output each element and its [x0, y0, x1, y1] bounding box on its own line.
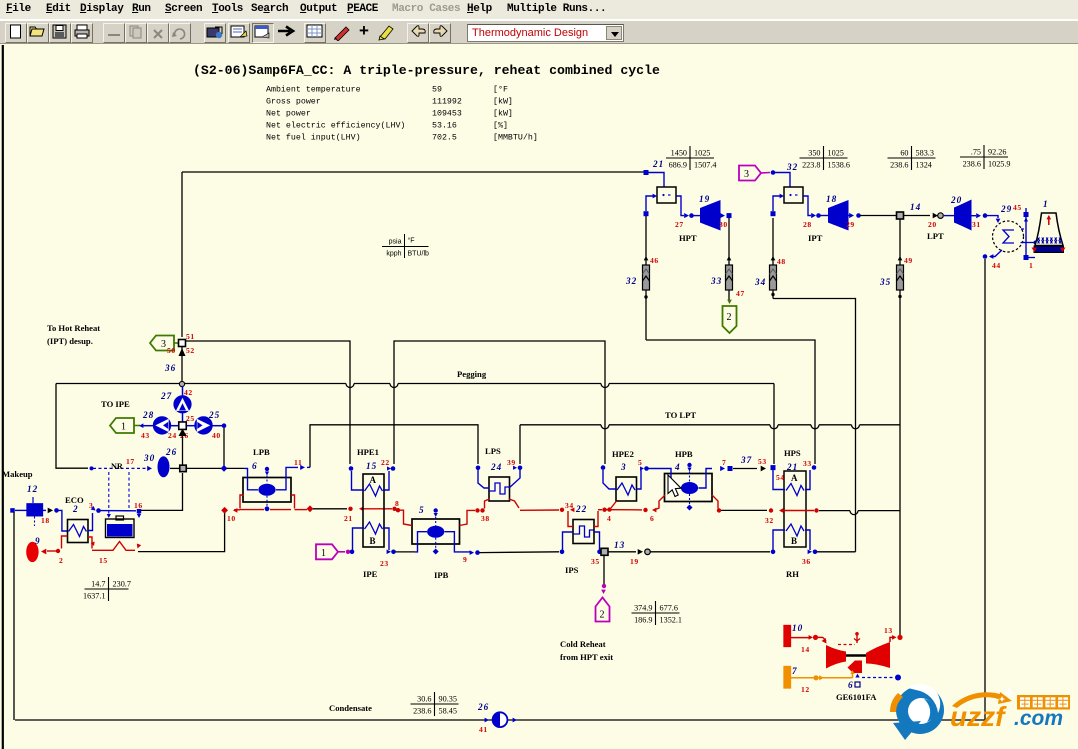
- svg-text:9: 9: [35, 536, 41, 546]
- svg-text:1: 1: [1029, 261, 1033, 270]
- svg-text:[kW]: [kW]: [493, 109, 513, 119]
- svg-text:30: 30: [719, 220, 728, 229]
- svg-text:53: 53: [758, 457, 767, 466]
- svg-text:238.6: 238.6: [890, 161, 908, 170]
- svg-text:13: 13: [884, 626, 893, 635]
- svg-text:677.6: 677.6: [660, 604, 678, 613]
- svg-text:Gross power: Gross power: [266, 98, 321, 107]
- svg-text:18: 18: [826, 194, 837, 204]
- svg-text:27: 27: [160, 391, 172, 401]
- svg-text:23: 23: [380, 559, 389, 568]
- svg-text:49: 49: [904, 256, 913, 265]
- svg-text:NR: NR: [111, 462, 123, 471]
- svg-text:46: 46: [650, 256, 659, 265]
- svg-text:702.5: 702.5: [432, 134, 457, 143]
- svg-text:1637.1: 1637.1: [83, 592, 106, 601]
- svg-text:21: 21: [786, 462, 798, 472]
- svg-text:1: 1: [121, 422, 126, 433]
- svg-text:30: 30: [143, 453, 155, 463]
- svg-text:31: 31: [972, 220, 981, 229]
- svg-text:51: 51: [186, 332, 195, 341]
- svg-text:22: 22: [575, 504, 587, 514]
- svg-text:LPS: LPS: [485, 446, 501, 456]
- svg-text:2: 2: [59, 556, 63, 565]
- svg-text:.com: .com: [1014, 707, 1063, 730]
- svg-text:6: 6: [252, 461, 258, 471]
- svg-text:14: 14: [801, 645, 810, 654]
- svg-text:2: 2: [72, 504, 79, 514]
- svg-text:7: 7: [722, 458, 726, 467]
- svg-text:58.45: 58.45: [439, 707, 457, 716]
- svg-text:To Hot Reheat: To Hot Reheat: [47, 323, 100, 333]
- svg-text:32: 32: [765, 516, 774, 525]
- svg-text:LPT: LPT: [927, 231, 944, 241]
- svg-text:1: 1: [321, 548, 326, 559]
- svg-text:1025: 1025: [694, 149, 710, 158]
- svg-text:36: 36: [164, 363, 176, 373]
- svg-text:from HPT exit: from HPT exit: [560, 652, 613, 662]
- svg-text:238.6: 238.6: [413, 707, 431, 716]
- svg-text:24: 24: [168, 431, 177, 440]
- svg-text:10: 10: [792, 623, 803, 633]
- svg-text:92.26: 92.26: [988, 148, 1006, 157]
- svg-text:44: 44: [992, 261, 1001, 270]
- svg-text:25: 25: [208, 410, 220, 420]
- svg-text:29: 29: [1000, 204, 1012, 214]
- svg-text:39: 39: [507, 458, 516, 467]
- svg-text:Net fuel input(LHV): Net fuel input(LHV): [266, 133, 361, 143]
- svg-text:B: B: [791, 536, 797, 546]
- svg-text:35: 35: [879, 277, 891, 287]
- svg-text:12: 12: [801, 685, 810, 694]
- svg-text:41: 41: [479, 725, 488, 734]
- svg-text:34: 34: [754, 277, 766, 287]
- svg-text:17: 17: [126, 457, 135, 466]
- svg-text:(IPT) desup.: (IPT) desup.: [47, 336, 93, 346]
- svg-text:12: 12: [27, 484, 38, 494]
- svg-text:HPT: HPT: [679, 233, 697, 243]
- svg-text:5: 5: [638, 458, 642, 467]
- svg-text:HPS: HPS: [784, 448, 801, 458]
- svg-text:15: 15: [366, 461, 377, 471]
- svg-text:GE6101FA: GE6101FA: [836, 692, 877, 702]
- svg-text:20: 20: [928, 220, 937, 229]
- svg-text:29: 29: [846, 220, 855, 229]
- svg-text:HPE2: HPE2: [612, 449, 634, 459]
- svg-text:20: 20: [950, 195, 962, 205]
- svg-text:2: 2: [727, 312, 732, 323]
- svg-text:psia: psia: [389, 239, 402, 246]
- svg-text:Condensate: Condensate: [329, 703, 372, 713]
- svg-text:3: 3: [620, 462, 627, 472]
- svg-text:33: 33: [803, 459, 812, 468]
- svg-text:28: 28: [142, 410, 154, 420]
- svg-text:90.35: 90.35: [439, 695, 457, 704]
- svg-text:19: 19: [699, 194, 710, 204]
- svg-text:25: 25: [186, 414, 195, 423]
- svg-text:47: 47: [736, 289, 745, 298]
- svg-text:32: 32: [625, 276, 637, 286]
- svg-text:1538.6: 1538.6: [828, 161, 851, 170]
- svg-text:26: 26: [477, 702, 489, 712]
- svg-text:111992: 111992: [432, 98, 462, 107]
- svg-text:22: 22: [381, 458, 390, 467]
- svg-text:30.6: 30.6: [417, 695, 431, 704]
- svg-text:374.9: 374.9: [634, 604, 652, 613]
- svg-text:33: 33: [710, 276, 722, 286]
- svg-text:[kW]: [kW]: [493, 97, 513, 107]
- svg-text:11: 11: [294, 458, 302, 467]
- svg-text:583.3: 583.3: [916, 149, 934, 158]
- svg-text:1324: 1324: [916, 161, 932, 170]
- svg-text:[°F: [°F: [493, 85, 508, 95]
- svg-text:[MMBTU/h]: [MMBTU/h]: [493, 133, 538, 143]
- svg-text:TO LPT: TO LPT: [665, 410, 696, 420]
- svg-text:2: 2: [600, 610, 605, 621]
- svg-text:A: A: [791, 473, 798, 483]
- svg-text:38: 38: [481, 514, 490, 523]
- svg-text:35: 35: [591, 557, 600, 566]
- svg-text:19: 19: [630, 557, 639, 566]
- svg-text:1025: 1025: [828, 149, 844, 158]
- svg-text:16: 16: [134, 501, 143, 510]
- svg-text:6: 6: [650, 514, 654, 523]
- svg-text:109453: 109453: [432, 110, 462, 119]
- svg-text:21: 21: [344, 514, 353, 523]
- svg-text:7: 7: [792, 666, 798, 676]
- svg-text:18: 18: [41, 516, 50, 525]
- svg-text:50: 50: [167, 346, 176, 355]
- svg-text:59: 59: [432, 86, 442, 95]
- svg-text:4: 4: [674, 462, 681, 472]
- svg-text:HPE1: HPE1: [357, 447, 379, 457]
- svg-text:IPB: IPB: [434, 570, 449, 580]
- svg-text:TO IPE: TO IPE: [101, 399, 130, 409]
- svg-text:B: B: [370, 536, 376, 546]
- svg-text:14.7: 14.7: [91, 580, 105, 589]
- svg-text:IPE: IPE: [363, 569, 378, 579]
- svg-text:Cold Reheat: Cold Reheat: [560, 639, 606, 649]
- svg-text:°F: °F: [408, 237, 415, 245]
- svg-text:52: 52: [186, 346, 195, 355]
- svg-text:37: 37: [740, 455, 752, 465]
- svg-text:223.8: 223.8: [802, 161, 820, 170]
- svg-text:[%]: [%]: [493, 121, 508, 131]
- svg-text:LPB: LPB: [253, 447, 270, 457]
- svg-text:27: 27: [675, 220, 684, 229]
- svg-text:43: 43: [141, 431, 150, 440]
- svg-text:28: 28: [803, 220, 812, 229]
- svg-text:238.6: 238.6: [963, 160, 981, 169]
- svg-text:8: 8: [395, 499, 399, 508]
- svg-text:10: 10: [227, 514, 236, 523]
- svg-text:1507.4: 1507.4: [694, 161, 717, 170]
- svg-text:24: 24: [490, 462, 502, 472]
- svg-text:IPS: IPS: [565, 565, 579, 575]
- svg-text:1: 1: [1043, 199, 1049, 209]
- svg-text:Makeup: Makeup: [2, 469, 33, 479]
- svg-text:350: 350: [808, 149, 820, 158]
- svg-text:4: 4: [607, 514, 611, 523]
- svg-text:BTU/lb: BTU/lb: [408, 251, 430, 258]
- svg-text:A: A: [370, 475, 377, 485]
- svg-text:686.9: 686.9: [669, 161, 687, 170]
- svg-text:186.9: 186.9: [634, 616, 652, 625]
- svg-text:1352.1: 1352.1: [660, 616, 683, 625]
- svg-text:Net power: Net power: [266, 110, 311, 119]
- svg-text:HPB: HPB: [675, 449, 693, 459]
- svg-text:Ambient temperature: Ambient temperature: [266, 85, 361, 95]
- svg-text:36: 36: [802, 557, 811, 566]
- svg-text:48: 48: [777, 257, 786, 266]
- svg-text:13: 13: [614, 540, 625, 550]
- svg-text:230.7: 230.7: [113, 580, 131, 589]
- svg-text:(S2-06)Samp6FA_CC: A triple-pr: (S2-06)Samp6FA_CC: A triple-pressure, re…: [193, 63, 660, 78]
- svg-text:Pegging: Pegging: [457, 369, 487, 379]
- svg-text:3: 3: [744, 169, 749, 180]
- svg-text:45: 45: [1013, 203, 1022, 212]
- svg-text:14: 14: [910, 202, 921, 212]
- svg-text:6: 6: [848, 680, 854, 690]
- svg-text:.75: .75: [971, 148, 981, 157]
- svg-text:9: 9: [463, 555, 467, 564]
- svg-text:kpph: kpph: [386, 251, 401, 258]
- svg-text:26: 26: [165, 447, 177, 457]
- svg-text:54: 54: [776, 473, 785, 482]
- svg-text:3: 3: [89, 501, 93, 510]
- svg-text:60: 60: [900, 149, 908, 158]
- svg-text:53.16: 53.16: [432, 122, 457, 131]
- svg-text:5: 5: [419, 505, 425, 515]
- svg-text:40: 40: [212, 431, 221, 440]
- svg-text:32: 32: [786, 162, 798, 172]
- svg-text:21: 21: [652, 159, 664, 169]
- svg-text:Net electric efficiency(LHV): Net electric efficiency(LHV): [266, 121, 405, 131]
- svg-text:3: 3: [161, 339, 166, 350]
- svg-text:IPT: IPT: [808, 233, 823, 243]
- svg-text:RH: RH: [786, 569, 799, 579]
- svg-text:15: 15: [99, 556, 108, 565]
- svg-text:1025.9: 1025.9: [988, 160, 1011, 169]
- svg-text:1450: 1450: [671, 149, 687, 158]
